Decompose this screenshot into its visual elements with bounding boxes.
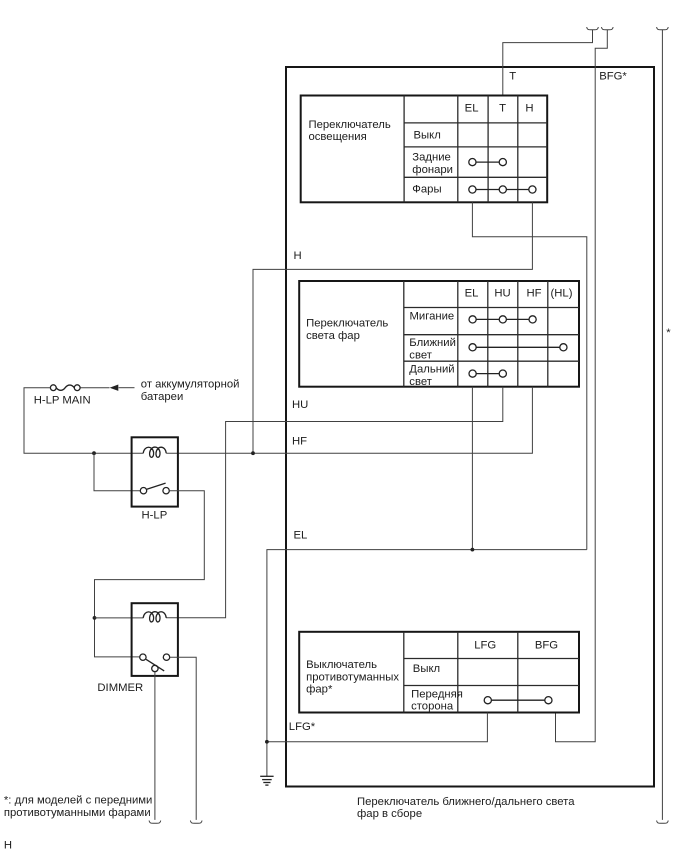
wire DIMMER right contact down (to high beam) <box>170 657 197 820</box>
junction feed / H-LP switch branch <box>92 451 96 455</box>
wire break symbol (low beam) <box>149 821 161 824</box>
switch contacts of relay DIMMER <box>140 654 170 672</box>
svg-text:свет: свет <box>409 350 432 362</box>
svg-text:H: H <box>525 103 533 115</box>
svg-text:свет: свет <box>409 376 432 388</box>
contacts U2 row Ближний свет: EL-(HL) <box>469 344 567 351</box>
connector break symbol right bus (top) <box>657 27 669 30</box>
wire right bus <box>661 30 663 820</box>
svg-text:освещения: освещения <box>309 131 367 143</box>
svg-text:HF: HF <box>292 435 307 447</box>
svg-text:BFG*: BFG* <box>599 71 627 83</box>
svg-text:DIMMER: DIMMER <box>97 682 143 694</box>
connector break symbol T (top) <box>587 27 599 30</box>
svg-text:сторона: сторона <box>411 701 454 713</box>
wire BFG: from connector down to fog switch BFG column <box>556 30 608 742</box>
wire H: from U1 H column down and left, down to relay coil line <box>253 202 532 453</box>
svg-text:H-LP: H-LP <box>142 509 168 521</box>
contacts U2 row Мигание: EL-HU-HF <box>469 316 536 323</box>
wire EL: from U1 EL column down, right and down to EL bus <box>472 202 586 549</box>
connector break symbol BFG (top) <box>602 27 614 30</box>
svg-text:*: для моделей с передними: *: для моделей с передними <box>4 794 152 806</box>
svg-text:от аккумуляторной: от аккумуляторной <box>141 379 240 391</box>
svg-text:HU: HU <box>494 287 510 299</box>
svg-text:фар*: фар* <box>306 684 333 696</box>
coil of relay H-LP <box>143 447 166 457</box>
svg-text:Мигание: Мигание <box>410 311 455 323</box>
svg-text:H-LP MAIN: H-LP MAIN <box>34 395 91 407</box>
svg-text:*: * <box>666 327 671 339</box>
svg-text:Фары: Фары <box>412 183 441 195</box>
svg-text:Переключатель: Переключатель <box>309 119 391 131</box>
svg-text:EL: EL <box>465 287 479 299</box>
contacts U2 row Дальний свет: EL-HU <box>469 370 506 377</box>
switch table U3: Выключатель противотуманных фар* <box>299 632 579 713</box>
wire EL bus: horizontal, down left side to ground <box>267 550 587 777</box>
svg-text:EL: EL <box>294 530 308 542</box>
svg-text:света фар: света фар <box>306 330 360 342</box>
relay DIMMER <box>97 603 178 694</box>
junction H wire / HF-coil line <box>251 451 255 455</box>
wire H-LP switch output down-left to DIMMER feed <box>95 491 205 657</box>
switch table U1: Переключатель освещения <box>301 96 548 203</box>
svg-text:BFG: BFG <box>535 640 558 652</box>
svg-text:LFG: LFG <box>474 640 496 652</box>
wire from fuse down to H-LP relay feed line <box>24 388 143 454</box>
svg-text:T: T <box>499 103 506 115</box>
wire break symbol (high beam) <box>190 821 202 824</box>
svg-text:HF: HF <box>526 287 541 299</box>
svg-text:Ближний: Ближний <box>409 337 456 349</box>
svg-text:LFG*: LFG* <box>289 721 316 733</box>
wire battery feed to fuse <box>80 387 109 389</box>
svg-text:HU: HU <box>292 399 308 411</box>
svg-text:Выкл: Выкл <box>414 130 441 142</box>
contacts U1 row Задние фонари: EL-T <box>469 159 507 166</box>
svg-text:противотуманными фарами: противотуманными фарами <box>4 807 151 819</box>
wire T: from connector down-left to light switch T column <box>503 30 593 96</box>
junction DIMMER feed / coil branch <box>93 616 97 620</box>
switch table U2: Переключатель света фар <box>299 281 579 388</box>
ground <box>260 776 273 785</box>
switch contacts of relay H-LP <box>140 483 169 494</box>
wire LFG: from U3 LFG column down then left to EL bus <box>267 713 488 742</box>
svg-text:(HL): (HL) <box>551 287 573 299</box>
wire branch to DIMMER coil <box>95 617 144 619</box>
wire branch to H-LP switch common <box>94 453 140 491</box>
svg-text:T: T <box>509 71 516 83</box>
svg-text:батареи: батареи <box>141 391 183 403</box>
arrow from battery <box>110 385 119 391</box>
wire HU: from U2 HU column down-left-down to DIMMER coil <box>166 387 503 618</box>
coil of relay DIMMER <box>143 612 166 622</box>
svg-text:Задние: Задние <box>412 152 451 164</box>
wire HF: from U2 HF column down then left to H-LP coil <box>166 387 532 454</box>
contacts U1 row Фары: EL-T-H <box>469 186 536 193</box>
wire EL drop from U2 EL column <box>471 387 473 550</box>
wire break symbol right bus (bottom) <box>657 821 669 824</box>
svg-text:Переключатель: Переключатель <box>306 318 388 330</box>
junction LFG wire / EL bus <box>265 740 269 744</box>
svg-text:Переключатель ближнего/дальнег: Переключатель ближнего/дальнего света <box>357 796 575 808</box>
svg-text:H: H <box>4 840 12 852</box>
junction EL bus / U2 EL drop <box>471 548 475 552</box>
svg-text:фонари: фонари <box>412 164 453 176</box>
svg-text:Выкл: Выкл <box>413 663 440 675</box>
assembly box: Переключатель ближнего/дальнего света фар в сборе <box>286 67 654 820</box>
fuse H-LP MAIN <box>34 385 91 407</box>
svg-text:Передняя: Передняя <box>411 689 463 701</box>
svg-text:фар в сборе: фар в сборе <box>357 808 422 820</box>
svg-text:H: H <box>294 250 302 262</box>
svg-text:EL: EL <box>465 103 479 115</box>
svg-text:противотуманных: противотуманных <box>306 671 399 683</box>
svg-text:Дальний: Дальний <box>409 364 454 376</box>
relay H-LP <box>132 437 178 521</box>
wire DIMMER common contact down (to low beam) <box>154 672 156 820</box>
contacts U3 row Передняя сторона: LFG-BFG <box>484 697 552 704</box>
svg-text:Выключатель: Выключатель <box>306 659 377 671</box>
